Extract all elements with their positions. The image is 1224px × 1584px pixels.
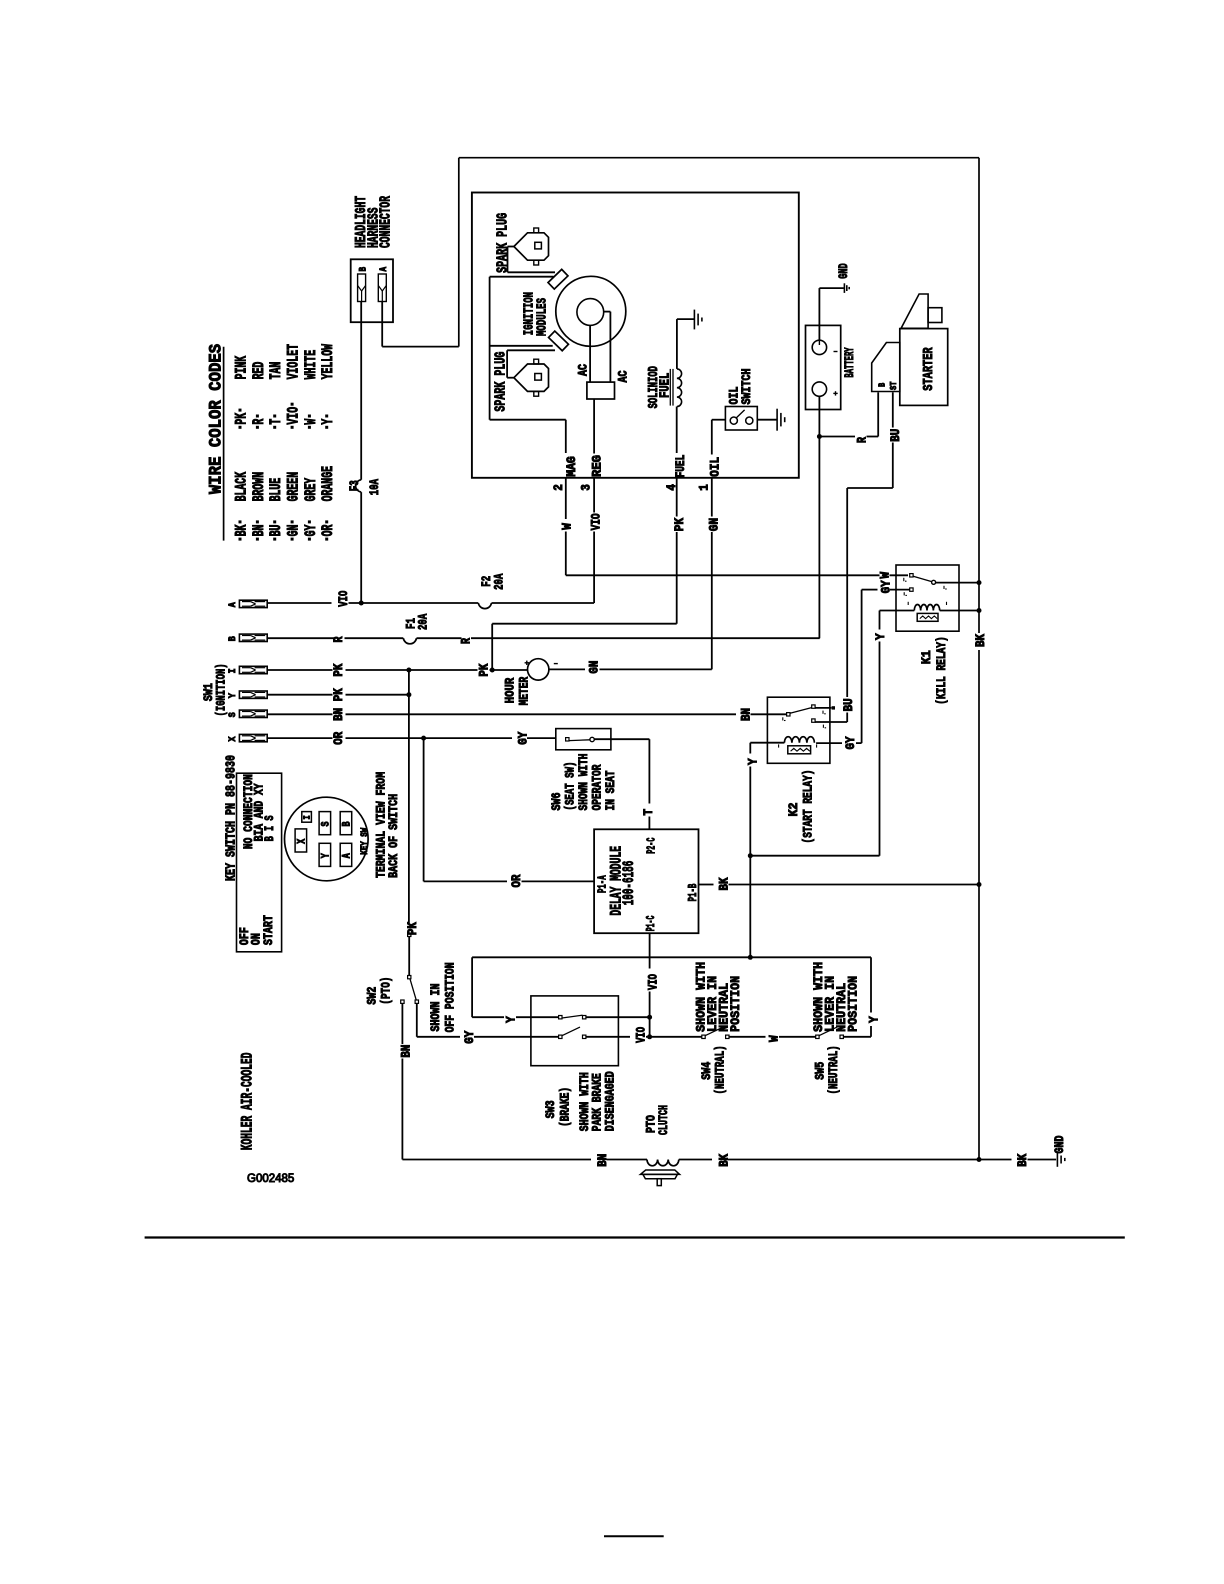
svg-text:BK: BK [232,524,250,536]
battery box [806,325,841,409]
svg-text:W: W [561,523,575,530]
delay module box [594,829,698,933]
ground (bottom right GND) [1056,1152,1058,1167]
svg-text:VIO: VIO [284,407,302,425]
battery terminal negative [812,340,826,354]
wire: S terminal BN wire [267,713,332,715]
svg-text:GY: GY [463,1030,477,1043]
table row T = TAN [273,426,276,429]
svg-text:GREY: GREY [302,477,320,501]
ignition modules enclosure [489,277,491,420]
svg-text:T: T [267,419,285,425]
node: K2 stub terminal [832,706,835,709]
key switch pin B [340,812,352,835]
svg-text:X: X [297,839,309,844]
svg-text:VIO: VIO [634,1027,648,1043]
wire: I terminal PK wire [267,669,332,671]
spark plug 1 (upper) [514,233,549,260]
table row R = RED [256,426,259,429]
magneto inner circle [577,299,604,326]
relay K1 GY contact [910,588,913,591]
wire: A terminal VIO wire [267,602,331,604]
svg-text:W: W [879,571,893,578]
wire: REG vertical [593,399,595,454]
svg-text:BN: BN [596,1154,610,1167]
terminal B headlight [358,274,366,302]
svg-text:BK: BK [718,877,732,890]
svg-text:K1: K1 [919,650,934,664]
svg-text:GN: GN [588,661,602,674]
fuse F3 [356,480,362,492]
table row PK = PINK [239,426,242,429]
svg-text:KEY SWITCH PN 88-9830: KEY SWITCH PN 88-9830 [225,755,240,881]
svg-text:SW2: SW2 [364,986,379,1004]
node: VIO junction SW3 lower [647,1034,652,1039]
svg-text:DISENGAGED: DISENGAGED [602,1071,617,1131]
wire: X terminal OR wire [267,737,332,739]
terminal A headlight [378,274,386,302]
wire: battery negative to GND [818,288,820,340]
svg-text:POSITION: POSITION [846,976,861,1032]
relay K2 BN contact [787,713,790,716]
seat switch contact [566,738,569,741]
svg-text:TAN: TAN [267,362,285,380]
svg-text:S: S [227,712,239,717]
neutral switch SW4 contacts [702,1035,705,1038]
wire: neutral rail right drop [870,957,872,1012]
node: OR junction [421,736,426,741]
svg-text:METER: METER [517,677,532,706]
svg-text:PK: PK [332,663,346,676]
svg-text:MODULES: MODULES [534,298,550,336]
wire: SW3 lower output VIO [586,1036,630,1038]
svg-text:PK: PK [406,922,420,935]
svg-text:I: I [302,815,313,819]
hour meter [528,659,549,680]
seat switch SW6 box [556,729,611,750]
ignition module 1 (upper) [548,269,568,289]
svg-text:OR: OR [319,524,337,536]
wire: oil switch right stub [757,419,777,421]
svg-text:R: R [332,636,346,642]
starter upper flag [901,294,928,328]
battery terminal positive [812,382,826,396]
wire: oil switch left stub [712,419,726,421]
svg-text:MAG: MAG [565,456,579,477]
flywheel magneto circle [556,276,626,346]
ground (battery GND) [843,283,845,293]
wire: K1 coil leads [880,610,915,612]
svg-text:Y: Y [505,1016,519,1023]
svg-text:GREEN: GREEN [284,472,302,502]
svg-text:BN: BN [250,525,268,537]
SW3 lower blade [562,1027,580,1036]
svg-text:BN: BN [332,708,346,721]
wire: headlight A lead horizontal [382,346,459,348]
svg-text:VIO: VIO [590,513,604,530]
svg-text:BK: BK [717,1153,731,1166]
svg-text:B: B [359,267,370,272]
oil switch box [725,407,757,431]
switch SW2 blade [410,979,416,1000]
wire: B terminal R wire with fuse F1 [267,637,334,639]
table row GN = GREEN [291,538,294,541]
svg-text:BK: BK [974,634,988,647]
hour meter plus [525,662,529,664]
svg-text:GND: GND [836,263,851,279]
svg-text:KOHLER AIR-COOLED: KOHLER AIR-COOLED [238,1053,256,1151]
SW3 upper blade [562,1015,583,1018]
svg-text:20A: 20A [491,573,506,589]
svg-text:BU: BU [267,525,285,537]
svg-text:BACK OF SWITCH: BACK OF SWITCH [386,794,401,878]
svg-text:GY: GY [879,580,893,593]
wire: MAG / W vertical [565,420,567,453]
wire: starter ST BU down [892,392,894,427]
svg-text:BN: BN [400,1045,414,1058]
wire: FUEL vertical [676,407,678,454]
svg-text:1: 1 [697,484,711,491]
starter terminal lug [928,308,942,323]
starter main box [900,329,948,406]
svg-text:S: S [321,821,333,826]
wire: SW4 to SW5 W wire [729,1036,766,1038]
node: PK junction to key switch feed [406,668,411,673]
wire: P1-C VIO down from delay module [649,933,651,969]
svg-text:ORANGE: ORANGE [319,466,337,501]
wire: SW2 BN down [401,1003,403,1044]
connector terminal I SW1 [239,666,267,673]
wire color codes underline [223,347,225,541]
relay K1 blade [913,576,932,581]
svg-text:HOUR: HOUR [503,678,518,704]
svg-text:B: B [342,821,354,826]
ignition module 2 (lower) [549,331,569,351]
SW3 lower contacts [559,1035,562,1038]
svg-text:PINK: PINK [232,355,250,379]
relay K1 pin ticks [903,578,905,581]
switch SW2 pivot terminal [408,976,411,979]
svg-text:R: R [856,437,870,443]
svg-text:A: A [342,853,354,858]
svg-text:B I S: B I S [262,815,277,841]
key switch table box [237,773,282,952]
connector terminal X SW1 [239,734,267,741]
table row VIO = VIOLET [291,426,294,429]
svg-text:REG: REG [591,455,605,477]
relay K2 blade [790,708,812,714]
svg-text:(NEUTRAL): (NEUTRAL) [713,1045,728,1094]
svg-text:BLACK: BLACK [232,471,250,501]
PTO clutch hub [657,1179,661,1186]
seat switch pivot [590,737,594,741]
wire: OIL / GN vertical [711,420,713,455]
svg-text:R: R [460,638,474,644]
wire: Y terminal PK wire [267,694,332,696]
key switch terminal view circle [285,797,369,881]
key switch pin S [319,812,331,835]
SW4 blade [705,1027,723,1036]
svg-text:GN: GN [284,525,302,537]
svg-text:BN: BN [740,708,754,721]
wire: PK feed down to SW2 [408,670,410,695]
node: PK junction Y [406,692,411,697]
node: BK junction K1 coil [977,608,982,613]
node: BK junction P1-B [977,882,982,887]
wire: headlight A vertical [381,302,383,347]
wire: R to starter B [819,436,855,438]
svg-text:(BRAKE): (BRAKE) [558,1087,573,1127]
solenoid fuel coil [676,319,678,369]
table row OR = ORANGE [325,538,328,541]
ground (oil switch) [776,409,778,431]
svg-text:(NEUTRAL): (NEUTRAL) [826,1045,841,1094]
solenoid fuel underline bars [669,369,671,406]
wire: headlight B / VIO vertical with fuse F3 [360,302,362,480]
node: BK junction bottom [977,1157,982,1162]
fuse F2 [478,603,491,609]
PTO clutch plates [640,1170,679,1174]
connector: headlight harness connector box [351,259,393,322]
relay K2 NC contact [812,719,815,722]
node: Y junction neutral [748,955,753,960]
wire: K1 switch output [936,582,979,584]
svg-text:SPARK PLUG: SPARK PLUG [494,213,511,273]
wire: fuel feed PK vertical [491,624,493,670]
svg-text:START: START [261,915,276,945]
wire: BU vertical to K2 [846,488,848,697]
svg-text:SW3: SW3 [543,1100,558,1118]
key switch pin I [302,812,312,823]
label battery plus [833,392,837,394]
SW5 blade [819,1027,837,1036]
svg-text:ST: ST [888,381,899,390]
svg-text:G002485: G002485 [247,1173,294,1185]
switch SW2 feed terminal [408,933,411,936]
svg-text:VIO: VIO [646,974,660,990]
svg-text:T: T [642,808,656,815]
svg-text:P1-C: P1-C [644,916,658,932]
seat switch blade [569,739,590,742]
relay K2 coil [784,737,814,743]
wire: P1-B BK wire [699,884,714,886]
brake switch SW3 box [531,996,619,1066]
table row BN = BROWN [256,538,259,541]
wire: fuel feed horizontal [492,623,677,625]
svg-text:P1-B: P1-B [686,884,700,902]
relay K1 pivot [932,580,936,584]
svg-text:RED: RED [250,362,268,380]
svg-text:2: 2 [552,484,566,491]
wire: SW2 GY to SW3 [416,1003,418,1036]
wire: neutral top rail [472,956,871,958]
wire: BU jog [847,487,893,489]
svg-text:BROWN: BROWN [250,472,268,502]
table row Y = YELLOW [325,426,328,429]
svg-text:3: 3 [580,484,594,491]
ground (solenoid) [677,318,695,320]
wire: AC lead left [589,325,591,382]
PTO clutch coil [647,1160,679,1166]
wire: BK stub to bottom GND [979,1159,1012,1161]
node: R junction battery [817,434,822,439]
svg-text:P2-C: P2-C [645,838,659,854]
wire: SW5 output to Y drop [843,1036,871,1038]
svg-text:Y: Y [227,693,239,699]
wire: Y down to neutral switches [749,856,751,958]
svg-text:SHOWN IN: SHOWN IN [428,984,443,1032]
fuse F1 [403,638,416,644]
svg-text:GN: GN [708,518,722,531]
svg-text:PK: PK [332,688,346,701]
svg-text:OIL: OIL [708,457,722,477]
svg-text:K2: K2 [786,802,801,816]
connector terminal B SW1 [239,634,267,641]
relay K2 box [767,697,830,763]
relay K1 W contact [910,574,913,577]
svg-text:Y: Y [874,633,888,640]
wire: seat switch output [594,738,649,740]
svg-text:BATTERY: BATTERY [842,347,857,377]
page number underline [604,1535,664,1537]
svg-text:100-6186: 100-6186 [620,861,638,906]
svg-text:R: R [250,418,268,424]
wire: outer harness left edge [458,158,460,347]
connector terminal A SW1 [239,600,267,607]
oil switch contacts [730,417,737,424]
node: PK junction fuel feed [490,668,495,673]
wire: K2 NO stub [815,707,831,709]
svg-text:Y: Y [321,853,333,858]
connector terminal S SW1 [239,710,267,717]
svg-text:STARTER: STARTER [921,347,937,391]
table row BU = BLUE [273,538,276,541]
svg-text:GY: GY [302,524,320,536]
svg-text:VIO: VIO [337,590,351,606]
svg-text:BLUE: BLUE [267,478,285,502]
wire: SW3 upper output [586,1016,650,1018]
svg-text:BU: BU [842,698,856,711]
wire: P2-C down from seat switch [648,739,650,803]
relay K1 box [896,565,959,631]
key switch pin Y [319,843,331,866]
switch SW2 right contact [415,1000,418,1003]
svg-text:A: A [379,267,390,272]
svg-text:PK: PK [478,663,492,676]
SW3 upper contacts [559,1016,562,1019]
wire: K2 coil left lead [750,742,784,744]
engine harness inner box [472,193,799,478]
regulator block [587,382,615,399]
wire: battery positive down [818,396,820,638]
label battery minus [834,351,838,353]
wire: outer harness right edge / BK bus [978,158,980,633]
svg-text:I: I [227,668,239,673]
svg-text:4: 4 [665,484,679,491]
node: VIO junction SW3 upper [647,1015,652,1020]
svg-text:AC: AC [615,370,630,382]
svg-text:WHITE: WHITE [302,350,320,380]
svg-text:A: A [227,602,239,608]
svg-text:BU: BU [889,429,903,442]
svg-text:GY: GY [844,736,858,749]
starter solenoid flag [872,343,900,392]
relay K1 coil [914,604,939,610]
svg-text:(PTO): (PTO) [378,977,393,1005]
table row GY = GREY [308,538,311,541]
wire: OR down to delay module [423,738,425,881]
key switch pin X [295,829,307,852]
table row W = WHITE [308,426,311,429]
wire: Y horizontal above K2 [750,855,879,857]
svg-text:(IGNITION): (IGNITION) [214,663,229,716]
relay K2 pin ticks [782,717,784,720]
svg-text:10A: 10A [367,479,382,495]
svg-text:POSITION: POSITION [728,976,743,1032]
svg-text:OFF POSITION: OFF POSITION [443,962,458,1032]
footer separator line [145,1236,1125,1238]
svg-text:B: B [227,636,239,642]
svg-text:GND: GND [1052,1135,1067,1153]
spark plug 2 (lower) [514,364,549,391]
wire: bottom BK rail from PTO clutch [679,1159,712,1161]
node: VIO junction [359,601,364,606]
svg-text:OR: OR [510,874,524,887]
svg-text:FUEL: FUEL [658,373,674,398]
wire: AC lead right [604,311,611,313]
connector terminal Y SW1 [239,691,267,698]
svg-text:(START RELAY): (START RELAY) [801,770,816,844]
wire: spark plug 2 lead [507,377,514,379]
svg-text:OR: OR [332,731,346,744]
wire: outer harness top edge [459,157,979,159]
svg-text:Y: Y [867,1016,881,1023]
table row BK = BLACK [239,538,242,541]
svg-text:B: B [877,383,888,387]
wire: W wire to K1 [566,574,880,576]
wire: neutral rail left drop [471,957,473,1017]
svg-text:YELLOW: YELLOW [319,344,337,380]
svg-text:PK: PK [673,517,687,531]
switch SW2 left contact [401,1000,404,1003]
svg-text:VIOLET: VIOLET [284,344,302,379]
svg-text:20A: 20A [416,614,431,630]
svg-text:(KILL RELAY): (KILL RELAY) [934,636,949,705]
svg-text:KEY SW: KEY SW [359,827,371,854]
wire: Y from K1 coil down [879,611,881,630]
wire: bottom BN rail to PTO clutch [402,1159,591,1161]
node: BK junction K1 switch [977,580,982,585]
svg-text:SWITCH: SWITCH [739,369,754,405]
svg-text:X: X [227,736,239,742]
svg-text:FUEL: FUEL [674,455,688,478]
neutral switch SW5 contacts [816,1035,819,1038]
wire: hour meter GN wire [549,668,585,670]
wire: GY from K2 coil to K1 [816,742,842,744]
svg-text:W: W [302,418,320,424]
relay K2 NO contact [812,705,815,708]
svg-text:AC: AC [576,364,591,376]
wire: SW3 upper feed [472,1016,504,1018]
svg-text:W: W [767,1035,781,1042]
svg-text:CONNECTOR: CONNECTOR [377,196,394,248]
svg-text:IN SEAT: IN SEAT [603,770,618,810]
svg-text:SPARK PLUG: SPARK PLUG [493,352,510,412]
key switch pin A [340,843,352,866]
node: Y junction [748,853,753,858]
hour meter minus [554,663,558,665]
svg-text:F3: F3 [347,480,362,491]
